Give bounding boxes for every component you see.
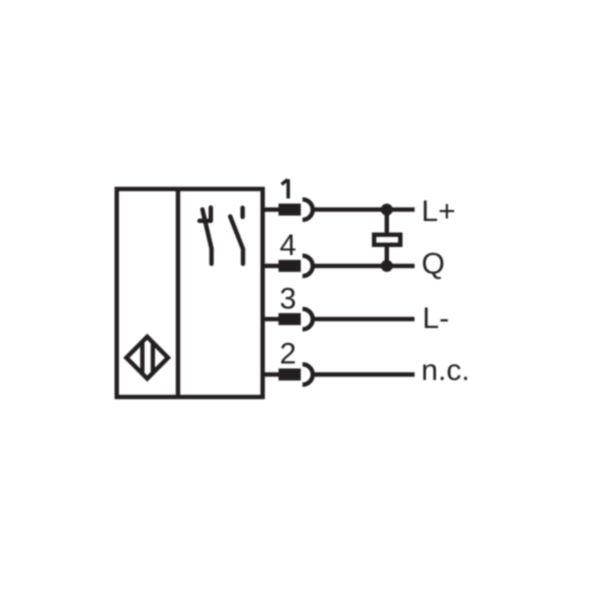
sensor body outline [117, 189, 263, 397]
junction dot on Q [381, 260, 393, 272]
wire pin4 to Q [315, 264, 415, 268]
svg-text:L-: L- [422, 302, 449, 335]
junction dot on L+ [381, 204, 393, 216]
svg-text:n.c.: n.c. [421, 354, 469, 387]
inductive sensor symbol (diamond) [126, 337, 168, 379]
pin 1 terminal [263, 199, 313, 219]
NC contact switch [200, 208, 212, 264]
pin 4 terminal [263, 256, 313, 276]
wire pin1 to L+ [315, 207, 415, 211]
pin 3 terminal [263, 309, 313, 329]
svg-text:3: 3 [280, 283, 297, 316]
pin 2 terminal [263, 364, 313, 384]
svg-text:4: 4 [280, 229, 297, 262]
load resistor between L+ and Q [374, 210, 400, 266]
svg-text:L+: L+ [421, 195, 455, 228]
wire pin3 to L- [315, 317, 415, 321]
sensor body divider [176, 189, 180, 397]
svg-text:Q: Q [422, 247, 445, 280]
pin 1 label [282, 179, 289, 198]
wire pin2 to n.c. [315, 372, 415, 376]
NO contact switch [230, 208, 243, 264]
svg-text:2: 2 [280, 338, 297, 371]
